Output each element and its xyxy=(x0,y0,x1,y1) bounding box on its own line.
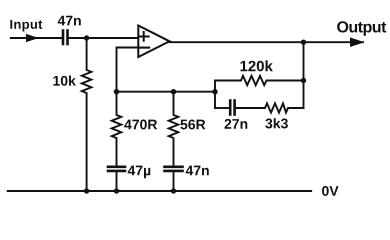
node feedback top right junction xyxy=(301,78,306,83)
input arrow xyxy=(26,34,39,42)
wire cap to op-amp plus input xyxy=(69,37,138,39)
wire output xyxy=(170,41,364,43)
label 47n decoupling xyxy=(186,166,209,176)
label 47n input xyxy=(58,16,81,26)
label Output xyxy=(337,21,386,35)
resistor 10k xyxy=(82,38,92,191)
wire op-amp inverting input down to node xyxy=(117,48,139,92)
label 3k3 xyxy=(265,118,288,128)
wire feedback lower left stub xyxy=(215,107,229,109)
label 470R xyxy=(124,120,157,130)
resistor 120k xyxy=(215,76,304,85)
label 0V xyxy=(322,186,338,196)
node rail 47n junction xyxy=(171,188,176,193)
output arrow xyxy=(350,37,365,47)
node 56R top junction xyxy=(171,89,176,94)
label 27n xyxy=(224,119,247,129)
node output junction xyxy=(301,40,306,45)
capacitor 47u xyxy=(108,167,125,171)
node rail 10k junction xyxy=(84,188,89,193)
capacitor 47n input coupling xyxy=(63,31,68,45)
label 47u xyxy=(128,166,151,179)
capacitor 27n xyxy=(230,101,234,115)
wire 47n to rail xyxy=(173,172,175,191)
label 120k xyxy=(240,60,272,71)
node feedback left junction xyxy=(212,89,217,94)
label 10k xyxy=(53,75,75,85)
capacitor 47n decoupling xyxy=(165,167,183,171)
wire feedback right vertical xyxy=(303,42,305,108)
resistor 3k3 xyxy=(236,103,304,112)
wire 47u to rail xyxy=(116,172,118,191)
op-amp U1 xyxy=(138,26,169,58)
wire input left segment xyxy=(11,37,62,39)
wire mid horizontal xyxy=(117,91,216,93)
wire feedback left vertical xyxy=(214,81,216,109)
node inverting feedback junction xyxy=(114,89,119,94)
resistor 56R xyxy=(169,92,179,167)
label 56R xyxy=(180,120,205,130)
label Input xyxy=(10,20,42,32)
resistor 470R xyxy=(112,92,122,167)
node rail 47u junction xyxy=(114,188,119,193)
node input junction xyxy=(84,35,89,40)
wire 0V rail xyxy=(8,190,312,192)
